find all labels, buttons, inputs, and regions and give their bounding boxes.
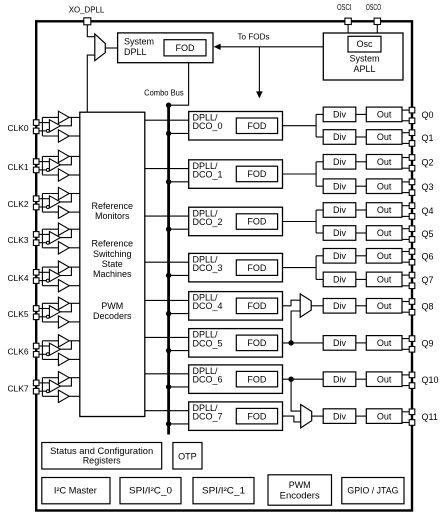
svg-text:SPI/I²C_0: SPI/I²C_0: [129, 486, 172, 496]
svg-text:FOD: FOD: [247, 411, 266, 421]
wire Out Q9 to pin negative: [402, 348, 409, 350]
buffer triangle CLK2 top: [58, 187, 69, 199]
pin CLK6 positive: [33, 343, 39, 349]
wire Reference Monitors to DPLL/DCO_4: [145, 299, 189, 301]
wire CLK1 top buffer output: [69, 155, 80, 157]
svg-text:Q6: Q6: [422, 252, 434, 262]
block DPLL/DCO_7: [189, 402, 283, 431]
junction FOD5 output: [288, 340, 293, 345]
svg-text:DCO_3: DCO_3: [193, 263, 223, 273]
wire CLK4 to top buffer: [42, 266, 58, 268]
svg-text:PWM: PWM: [101, 301, 123, 311]
buffer triangle CLK6 differential: [49, 343, 60, 355]
svg-text:Div: Div: [333, 301, 346, 311]
block DPLL/DCO_4: [189, 292, 283, 321]
wire Reference Monitors to DPLL/DCO_6: [145, 373, 189, 375]
pin Q8 positive: [409, 299, 415, 305]
wire to Div Q5: [316, 232, 323, 234]
wire CLK6 top buffer output: [69, 340, 80, 342]
wire FOD2 split vertical: [315, 210, 317, 233]
block Reference Monitors / Switching / PWM Decoders: [80, 112, 145, 416]
junction Combo Bus top: [166, 103, 171, 108]
svg-text:Out: Out: [377, 132, 392, 142]
wire Div to Out Q0: [356, 113, 367, 115]
wire CLK2 diff buffer output: [60, 194, 71, 202]
block FOD system DPLL: [164, 40, 206, 56]
wire Out Q10 to pin positive: [402, 374, 409, 376]
wire FOD2 output: [283, 221, 317, 223]
svg-text:Reference: Reference: [92, 201, 134, 211]
svg-text:FOD: FOD: [176, 43, 195, 53]
wire CLK0 bracket vertical: [41, 117, 43, 136]
wire CLK0 positive input: [39, 122, 49, 124]
block Out Q0: [366, 107, 402, 122]
wire Out Q9 to pin positive: [402, 338, 409, 340]
wire CLK2 bracket vertical: [41, 194, 43, 213]
pin Q6 positive: [409, 249, 415, 255]
buffer triangle CLK6 top: [58, 335, 69, 347]
buffer triangle CLK3 bottom: [58, 242, 69, 254]
input buffer cluster CLK2: [39, 187, 80, 218]
wire to Div Q6: [316, 255, 323, 257]
wire CLK6 positive input: [39, 345, 49, 347]
pin OSCI: [345, 18, 351, 24]
wire CLK6 to top buffer: [42, 340, 58, 342]
svg-text:System: System: [349, 54, 379, 64]
block Div Q2: [323, 155, 356, 170]
svg-text:Out: Out: [377, 338, 392, 348]
wire to Div Q2: [316, 161, 323, 163]
wire Reference Monitors to DPLL/DCO_3: [145, 261, 189, 263]
svg-text:Out: Out: [377, 157, 392, 167]
wire Out Q1 to pin positive: [402, 132, 409, 134]
block Div Q4: [323, 203, 356, 218]
svg-text:Switching: Switching: [93, 249, 132, 259]
svg-text:Out: Out: [377, 228, 392, 238]
wire CLK1 bottom buffer output: [69, 174, 80, 176]
wire FOD0 output: [283, 125, 317, 127]
block Status and Configuration Registers: [42, 443, 162, 470]
svg-text:CLK2: CLK2: [8, 199, 29, 209]
buffer triangle CLK4 differential: [49, 269, 60, 281]
block Div Q5: [323, 226, 356, 241]
wire CLK0 to bottom buffer: [42, 135, 58, 137]
svg-text:Div: Div: [333, 132, 346, 142]
block Div Q7: [323, 272, 356, 287]
svg-text:Div: Div: [333, 338, 346, 348]
pin Q2 positive: [409, 155, 415, 161]
svg-text:Out: Out: [377, 181, 392, 191]
input buffer cluster CLK3: [39, 223, 80, 254]
wire CLK4 top buffer output: [69, 266, 80, 268]
wire FOD6 to Div Q10: [283, 378, 324, 380]
pin Q7 positive: [409, 272, 415, 278]
wire CLK3 bracket vertical: [41, 229, 43, 248]
svg-text:Q1: Q1: [422, 133, 434, 143]
svg-text:Q3: Q3: [422, 182, 434, 192]
junction Combo Bus to DPLL/DCO_7: [166, 421, 171, 426]
svg-text:DCO_0: DCO_0: [193, 121, 223, 131]
block Div Q6: [323, 249, 356, 264]
wire CLK7 to bottom buffer: [42, 395, 58, 397]
wire CLK2 bottom buffer output: [69, 211, 80, 213]
pin OSCO: [374, 18, 380, 24]
wire Out Q11 to pin negative: [402, 422, 409, 424]
wire CLK2 positive input: [39, 198, 49, 200]
pin CLK6 negative: [33, 352, 39, 358]
wire CLK3 top buffer output: [69, 228, 80, 230]
wire Div to Out Q11: [356, 415, 367, 417]
wire FOD0 split vertical: [315, 114, 317, 137]
pin Q9 negative: [409, 347, 415, 353]
wire Out Q6 to pin positive: [402, 251, 409, 253]
block Out Q8: [366, 299, 402, 314]
svg-text:Q9: Q9: [422, 339, 434, 349]
svg-text:SPI/I²C_1: SPI/I²C_1: [202, 486, 245, 496]
svg-text:DCO_2: DCO_2: [193, 217, 223, 227]
wire CLK6 negative input: [39, 353, 46, 355]
svg-text:CLK5: CLK5: [8, 309, 29, 319]
pin Q4 positive: [409, 203, 415, 209]
pin Q3 negative: [409, 190, 415, 196]
svg-text:FOD: FOD: [247, 263, 266, 273]
block PWM Encoders: [268, 475, 332, 505]
wire CLK4 bottom buffer output: [69, 285, 80, 287]
wire Out Q8 to pin positive: [402, 301, 409, 303]
pin CLK3 negative: [33, 240, 39, 246]
wire CLK6 to bottom buffer: [42, 358, 58, 360]
input buffer cluster CLK5: [39, 297, 80, 328]
pin CLK7 positive: [33, 380, 39, 386]
wire Reference Monitors to DPLL/DCO_1: [145, 168, 189, 170]
svg-text:FOD: FOD: [247, 217, 266, 227]
svg-text:APLL: APLL: [353, 64, 375, 74]
wire CLK5 positive input: [39, 308, 49, 310]
svg-text:DCO_7: DCO_7: [193, 412, 223, 422]
block Div Q3: [323, 179, 356, 194]
block Out Q5: [366, 226, 402, 241]
pin Q3 positive: [409, 179, 415, 185]
wire FOD5 to Div Q9: [283, 342, 324, 344]
junction Combo Bus to DPLL/DCO_4: [166, 311, 171, 316]
pin Q2 negative: [409, 165, 415, 171]
wire CLK1 to top buffer: [42, 155, 58, 157]
wire Div to Out Q6: [356, 255, 367, 257]
pin CLK3 positive: [33, 232, 39, 238]
svg-text:Machines: Machines: [93, 269, 132, 279]
wire CLK7 negative input: [39, 390, 46, 392]
block FOD 3: [236, 260, 277, 276]
wire OSCI pin to System APLL: [347, 24, 349, 33]
wire CLK0 bottom buffer output: [69, 135, 80, 137]
wire Out Q3 to pin positive: [402, 181, 409, 183]
svg-text:Out: Out: [377, 275, 392, 285]
wire System DPLL to Combo Bus: [169, 63, 189, 105]
wire Reference Monitors to DPLL/DCO_0: [145, 119, 189, 121]
pin Q0 positive: [409, 107, 415, 113]
wire Div to Out Q4: [356, 209, 367, 211]
arrowhead into System DPLL: [214, 44, 221, 50]
wire CLK2 to top buffer: [42, 193, 58, 195]
block DPLL/DCO_3: [189, 253, 283, 282]
wire Div to Out Q9: [356, 342, 367, 344]
wire to Div Q3: [316, 185, 323, 187]
pin Q5 positive: [409, 226, 415, 232]
svg-text:Div: Div: [333, 251, 346, 261]
wire CLK0 diff buffer output: [60, 117, 71, 125]
svg-text:Monitors: Monitors: [95, 211, 130, 221]
wire mux to Div Q11: [312, 415, 324, 417]
svg-text:Q7: Q7: [422, 275, 434, 285]
inversion bubble CLK5 differential buffer: [46, 315, 49, 318]
svg-text:FOD: FOD: [247, 169, 266, 179]
junction FOD6 output: [288, 377, 293, 382]
svg-text:OSCI: OSCI: [337, 2, 352, 12]
svg-text:OTP: OTP: [178, 451, 197, 461]
svg-text:FOD: FOD: [247, 121, 266, 131]
wire Out Q3 to pin negative: [402, 192, 409, 194]
block Div Q11: [323, 409, 356, 424]
svg-text:Div: Div: [333, 374, 346, 384]
svg-text:PWM: PWM: [289, 480, 311, 490]
svg-text:FOD: FOD: [247, 374, 266, 384]
block Div Q0: [323, 107, 356, 122]
block FOD 4: [236, 298, 277, 314]
buffer triangle CLK1 bottom: [58, 169, 69, 181]
svg-text:Combo Bus: Combo Bus: [144, 88, 184, 98]
wire XO_DPLL pin to system mux input 1: [87, 24, 95, 37]
inversion bubble CLK4 differential buffer: [46, 279, 49, 282]
wire CLK3 to top buffer: [42, 228, 58, 230]
svg-text:Div: Div: [333, 411, 346, 421]
svg-text:XO_DPLL: XO_DPLL: [69, 5, 105, 15]
svg-text:Registers: Registers: [83, 456, 121, 466]
input buffer cluster CLK0: [39, 111, 80, 142]
svg-text:Q5: Q5: [422, 229, 434, 239]
svg-text:Out: Out: [377, 374, 392, 384]
svg-text:Osc: Osc: [356, 39, 373, 49]
block Osc: [348, 36, 381, 52]
buffer triangle CLK5 top: [58, 297, 69, 309]
input buffer cluster CLK6: [39, 335, 80, 366]
pin CLK5 negative: [33, 314, 39, 320]
svg-text:DCO_5: DCO_5: [193, 338, 223, 348]
junction Combo Bus to DPLL/DCO_3: [166, 273, 171, 278]
svg-text:I²C Master: I²C Master: [54, 486, 97, 496]
arrowhead To FODs: [256, 91, 263, 98]
wire CLK5 bottom buffer output: [69, 321, 80, 323]
inversion bubble CLK2 differential buffer: [46, 206, 49, 209]
wire CLK7 bottom buffer output: [69, 395, 80, 397]
block DPLL/DCO_1: [189, 160, 283, 189]
pin Q8 negative: [409, 309, 415, 315]
svg-text:Decoders: Decoders: [93, 311, 132, 321]
wire Out Q0 to pin negative: [402, 120, 409, 122]
wire CLK3 positive input: [39, 233, 49, 235]
svg-text:Out: Out: [377, 251, 392, 261]
input buffer cluster CLK1: [39, 150, 80, 181]
mux output Q8: [300, 294, 311, 317]
block FOD 0: [236, 118, 277, 134]
wire to Div Q1: [316, 136, 323, 138]
buffer triangle CLK0 top: [58, 111, 69, 123]
wire Div to Out Q7: [356, 278, 367, 280]
wire FOD7 to output mux Q11 input 2: [283, 416, 301, 422]
wire FOD3 output: [283, 267, 317, 269]
pin CLK4 positive: [33, 270, 39, 276]
wire Combo Bus to DPLL/DCO_6: [169, 386, 189, 388]
block System DPLL: [118, 33, 213, 63]
wire CLK6 bracket vertical: [41, 341, 43, 360]
svg-text:CLK3: CLK3: [8, 235, 29, 245]
pin CLK0 negative: [33, 128, 39, 134]
wire FOD5 branch to output mux Q8 input 2: [291, 311, 300, 343]
buffer triangle CLK0 differential: [49, 120, 60, 132]
svg-text:Out: Out: [377, 205, 392, 215]
block DPLL/DCO_5: [189, 329, 283, 358]
pin Q10 positive: [409, 372, 415, 378]
block DPLL/DCO_2: [189, 207, 283, 236]
wire CLK2 negative input: [39, 206, 46, 208]
block SPI/I2C_1: [193, 478, 254, 504]
wire Reference Monitors to DPLL/DCO_2: [145, 215, 189, 217]
wire Combo Bus to DPLL/DCO_0: [169, 132, 189, 134]
wire Out Q8 to pin negative: [402, 311, 409, 313]
svg-text:GPIO / JTAG: GPIO / JTAG: [347, 486, 398, 496]
wire System APLL to System DPLL FOD: [220, 46, 323, 48]
wire CLK0 to top buffer: [42, 116, 58, 118]
svg-text:Out: Out: [377, 411, 392, 421]
svg-text:CLK4: CLK4: [8, 273, 29, 283]
wire Combo Bus to DPLL/DCO_2: [169, 228, 189, 230]
wire CLK2 top buffer output: [69, 193, 80, 195]
svg-text:FOD: FOD: [247, 338, 266, 348]
wire CLK5 bracket vertical: [41, 303, 43, 322]
buffer triangle CLK7 bottom: [58, 390, 69, 402]
pin Q0 negative: [409, 118, 415, 124]
wire Out Q7 to pin positive: [402, 274, 409, 276]
buffer triangle CLK2 bottom: [58, 206, 69, 218]
wire CLK3 to bottom buffer: [42, 247, 58, 249]
wire Div to Out Q1: [356, 136, 367, 138]
junction Combo Bus to DPLL/DCO_0: [166, 131, 171, 136]
wire CLK3 negative input: [39, 242, 46, 244]
wire Div to Out Q2: [356, 161, 367, 163]
svg-text:DPLL: DPLL: [124, 47, 147, 57]
svg-text:Div: Div: [333, 205, 346, 215]
block Out Q3: [366, 179, 402, 194]
svg-text:OSCO: OSCO: [366, 2, 382, 12]
pin Q11 negative: [409, 420, 415, 426]
block Out Q11: [366, 409, 402, 424]
block Out Q7: [366, 272, 402, 287]
buffer triangle CLK2 differential: [49, 196, 60, 208]
pin Q11 positive: [409, 409, 415, 415]
wire Div to Out Q10: [356, 378, 367, 380]
wire FOD3 split vertical: [315, 256, 317, 280]
inversion bubble CLK6 differential buffer: [46, 353, 49, 356]
block Out Q2: [366, 155, 402, 170]
wire Out Q4 to pin negative: [402, 215, 409, 217]
buffer triangle CLK6 bottom: [58, 353, 69, 365]
block System APLL: [323, 33, 403, 80]
block DPLL/DCO_6: [189, 365, 283, 394]
block FOD 7: [236, 408, 277, 424]
block Div Q1: [323, 130, 356, 145]
svg-text:State: State: [102, 259, 123, 269]
mux system DPLL input: [95, 34, 106, 61]
inversion bubble CLK1 differential buffer: [46, 168, 49, 171]
pin XO_DPLL: [84, 18, 91, 25]
block Div Q9: [323, 336, 356, 351]
svg-text:Out: Out: [377, 110, 392, 120]
pin Q6 negative: [409, 259, 415, 265]
wire CLK7 bracket vertical: [41, 378, 43, 397]
svg-text:Q11: Q11: [422, 412, 438, 422]
svg-text:DCO_4: DCO_4: [193, 301, 223, 311]
block FOD 5: [236, 335, 277, 351]
buffer triangle CLK5 bottom: [58, 316, 69, 328]
junction Combo Bus to DPLL/DCO_2: [166, 227, 171, 232]
wire CLK6 diff buffer output: [60, 341, 71, 349]
block Out Q1: [366, 130, 402, 145]
pin Q10 negative: [409, 383, 415, 389]
wire mux to Div Q8: [311, 305, 323, 307]
pin CLK0 positive: [33, 120, 39, 126]
wire CLK7 to top buffer: [42, 377, 58, 379]
svg-text:Div: Div: [333, 110, 346, 120]
block Out Q6: [366, 249, 402, 264]
wire CLK2 to bottom buffer: [42, 211, 58, 213]
pin CLK5 positive: [33, 306, 39, 312]
pin Q7 negative: [409, 283, 415, 289]
svg-text:Div: Div: [333, 275, 346, 285]
svg-text:FOD: FOD: [247, 301, 266, 311]
svg-text:Q0: Q0: [422, 110, 434, 120]
wire Out Q2 to pin positive: [402, 157, 409, 159]
wire CLK5 negative input: [39, 316, 46, 318]
buffer triangle CLK4 bottom: [58, 280, 69, 292]
wire CLK5 diff buffer output: [60, 303, 71, 312]
wire Out Q11 to pin positive: [402, 411, 409, 413]
wire CLK3 bottom buffer output: [69, 247, 80, 249]
block Out Q4: [366, 203, 402, 218]
wire Combo Bus vertical: [167, 105, 170, 434]
wire OSCO pin to System APLL: [376, 24, 378, 33]
svg-text:CLK6: CLK6: [8, 347, 29, 357]
wire Out Q1 to pin negative: [402, 142, 409, 144]
svg-text:Div: Div: [333, 181, 346, 191]
block Div Q8: [323, 299, 356, 314]
buffer triangle CLK0 bottom: [58, 130, 69, 142]
wire FOD6 branch to output mux Q11 input 1: [291, 379, 301, 411]
pin CLK4 negative: [33, 278, 39, 284]
wire Combo Bus to DPLL/DCO_3: [169, 274, 189, 276]
wire to Div Q7: [316, 278, 323, 280]
wire mux to System DPLL: [105, 47, 117, 49]
pin CLK2 negative: [33, 204, 39, 210]
block I2C Master: [42, 478, 110, 504]
wire Reference Monitors to DPLL/DCO_5: [145, 336, 189, 338]
wire CLK0 top buffer output: [69, 116, 80, 118]
wire CLK1 bracket vertical: [41, 156, 43, 175]
wire Out Q6 to pin negative: [402, 261, 409, 263]
pin Q9 positive: [409, 336, 415, 342]
svg-text:Div: Div: [333, 228, 346, 238]
inversion bubble CLK3 differential buffer: [46, 241, 49, 244]
wire CLK4 bracket vertical: [41, 267, 43, 286]
wire Combo Bus to DPLL/DCO_5: [169, 350, 189, 352]
